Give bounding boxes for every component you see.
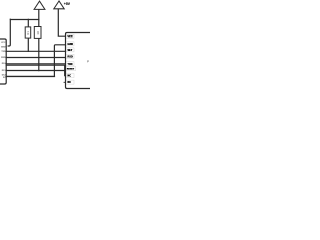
svg-text:VCC: VCC [1,42,6,44]
svg-text:R1: R1 [26,31,30,35]
svg-text:GND: GND [1,46,6,48]
svg-text:RXD: RXD [1,57,6,59]
svg-text:R2: R2 [36,30,40,34]
svg-text:P: P [87,59,89,63]
svg-text:TXD: TXD [1,51,6,53]
